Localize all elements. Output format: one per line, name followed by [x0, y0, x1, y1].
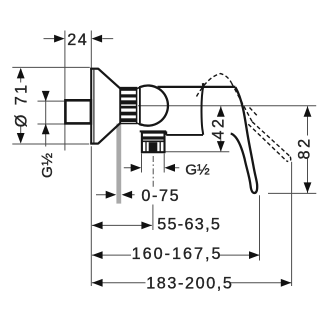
dashed lever raised: top arc	[197, 74, 232, 97]
arrow row 55-63,5 right	[141, 222, 152, 230]
arrow dia71 down	[17, 133, 25, 144]
arrow row 160-167,5 right	[249, 251, 260, 259]
lever rear edge	[201, 85, 203, 134]
wire dim-24 arrow tails	[44, 38, 114, 40]
wire dia71 dimension line	[20, 69, 22, 143]
wire escutcheon-face reference line (left column)	[90, 146, 92, 286]
wire dim-82 bottom extension line	[268, 192, 316, 194]
wire dashed-handle tip extension line	[291, 162, 293, 286]
svg-text:24: 24	[67, 31, 88, 49]
wire dim row 160-167,5 line	[92, 254, 260, 256]
lever rear nub	[202, 83, 205, 86]
arrow outlet G1/2 left-side	[131, 164, 142, 172]
outlet nipple thread center block	[149, 142, 158, 151]
wire pipe G1/2 dimension line	[45, 92, 47, 147]
wire body axis reference line	[138, 105, 316, 107]
svg-text:G½: G½	[185, 161, 210, 178]
svg-text:0-75: 0-75	[141, 187, 180, 205]
wire handle tip extension line	[259, 195, 261, 260]
wire dim-42 dimension line	[220, 106, 222, 151]
svg-text:55-63,5: 55-63,5	[157, 216, 221, 234]
wire wall plane extension line	[64, 31, 66, 151]
dashed lever raised: tip arc	[286, 157, 290, 162]
wire dim-82 dimension line	[307, 106, 309, 193]
dashed lever raised: knee fragment	[250, 108, 258, 116]
outlet flange dark band	[141, 136, 165, 139]
dashed lever raised: outer steep edge	[232, 83, 253, 122]
arrow dia71 up	[17, 68, 25, 79]
wire dim row 55-63,5 line	[92, 224, 152, 226]
svg-text:82: 82	[295, 136, 313, 159]
arrow dim42 down	[217, 141, 225, 152]
svg-text:183-200,5: 183-200,5	[146, 274, 233, 292]
body underside left	[140, 131, 167, 135]
arrow pipe down	[42, 91, 50, 102]
arrow dim42 up	[217, 106, 225, 117]
body underside right	[166, 134, 203, 136]
escutcheon	[90, 68, 120, 144]
cartridge dome	[141, 86, 168, 126]
wire dim-24 right extension line	[90, 31, 92, 68]
body top edge	[158, 86, 236, 88]
arrow dim24 right	[92, 35, 103, 43]
grey finished-wall range bar	[116, 124, 121, 204]
arrow row 183-200,5 right	[281, 279, 292, 287]
arrow dim82 up	[304, 106, 312, 117]
wire outlet axis extension line lower	[152, 205, 154, 231]
dashed lever raised: lower grip edge	[248, 124, 286, 161]
arrow dim24 left	[54, 35, 65, 43]
body collar line	[139, 86, 141, 125]
wire dim row 0-75 tails	[96, 194, 135, 196]
dashed lever raised: upper grip edge	[252, 122, 290, 157]
wire dia71 top extension line	[12, 66, 90, 68]
arrow row 0-75 right	[122, 191, 133, 199]
wire dim row 183-200,5 line	[92, 282, 292, 284]
outlet nipple side divider lines	[146, 142, 160, 152]
outlet flange and G1/2 nipple	[142, 133, 165, 153]
arrow row 55-63,5 left	[92, 222, 103, 230]
arrow row 0-75 left	[106, 191, 117, 199]
wire dim-42 bottom extension line	[166, 151, 230, 153]
arrow pipe up	[42, 124, 50, 135]
union nut (knurled)	[120, 86, 142, 126]
svg-text:Ø 71: Ø 71	[13, 82, 31, 127]
wire pipe top extension line	[38, 100, 65, 102]
arrow outlet G1/2 right-side	[165, 164, 176, 172]
wire pipe bottom extension line	[38, 123, 65, 125]
outlet nipple shoulder line	[141, 140, 165, 142]
arrow dim82 down	[304, 182, 312, 193]
svg-text:160-167,5: 160-167,5	[132, 245, 223, 263]
lever outer edge and tip	[231, 87, 257, 193]
wire outlet right extension line	[163, 154, 165, 173]
wire dia71 bottom extension line	[12, 143, 89, 145]
wire outlet center line (dash-dot)	[152, 156, 154, 188]
wire outlet G1/2 dim tails	[124, 167, 180, 169]
wire outlet left extension line	[141, 154, 143, 173]
svg-text:G½: G½	[39, 153, 56, 178]
arrow row 183-200,5 left	[92, 279, 103, 287]
pipe stub (wall union)	[65, 100, 91, 123]
arrow row 160-167,5 left	[92, 251, 103, 259]
svg-text:42: 42	[210, 116, 228, 139]
